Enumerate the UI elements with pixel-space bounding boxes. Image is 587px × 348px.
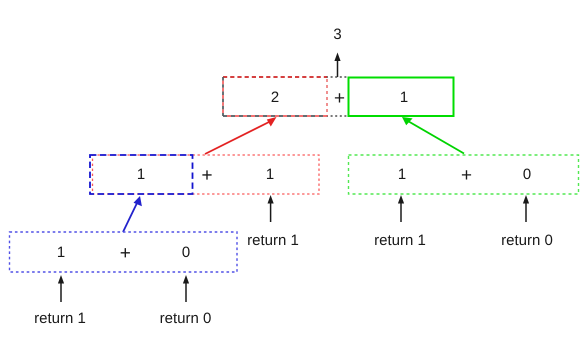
node plus-cell dotted bottom edge bbox=[326, 115, 349, 117]
node label return 0 bottom row bbox=[161, 313, 211, 324]
node plus sign middle-left row bbox=[202, 170, 211, 179]
wire arrow up to middle-left row value bbox=[268, 195, 274, 222]
node fib(2) red dashed box bbox=[223, 77, 327, 116]
wire arrow up to green row value 0 bbox=[523, 195, 529, 222]
node middle-left row value 1 bbox=[267, 169, 273, 179]
node label return 1 bottom row bbox=[35, 313, 85, 323]
wire arrow up to green row value 1 bbox=[398, 195, 404, 222]
wire blue arrow from bottom row to blue dashed box bbox=[123, 196, 142, 232]
node plus-cell dotted top edge bbox=[326, 76, 349, 78]
node fib(2) value 2 bbox=[272, 92, 279, 102]
wire arrow up to bottom row value 0 bbox=[183, 275, 189, 302]
wire red arrow from middle row to fib(2) box bbox=[205, 117, 277, 154]
node green row value 1 bbox=[399, 169, 405, 179]
node root value 3 bbox=[334, 29, 341, 40]
node bottom row value 1 bbox=[58, 247, 64, 257]
wire arrow up from top row to 3 bbox=[334, 53, 340, 78]
node fib(1) value 1 bbox=[401, 92, 407, 102]
node fib(1) blue dashed box bbox=[90, 155, 193, 194]
node plus sign green row bbox=[462, 170, 471, 179]
node bottom-left blue dotted row box bbox=[10, 232, 238, 272]
wire green arrow from green dotted row to fib(1) box bbox=[402, 117, 464, 154]
node middle-left red dotted row box bbox=[93, 155, 320, 194]
wire arrow up to bottom row value 1 bbox=[58, 275, 64, 302]
node bottom row value 0 bbox=[182, 247, 189, 258]
node green row value 0 bbox=[523, 169, 530, 180]
node label return 1 under green row bbox=[375, 235, 425, 245]
node label return 1 under middle-left row bbox=[248, 235, 298, 245]
node fib(1) green solid box bbox=[349, 78, 454, 117]
node blue box value 1 bbox=[138, 169, 144, 179]
node label return 0 under green row bbox=[502, 235, 552, 246]
node plus sign bottom row bbox=[121, 248, 130, 257]
node middle-right green dotted row box bbox=[349, 155, 579, 194]
node plus sign top row bbox=[335, 93, 344, 102]
